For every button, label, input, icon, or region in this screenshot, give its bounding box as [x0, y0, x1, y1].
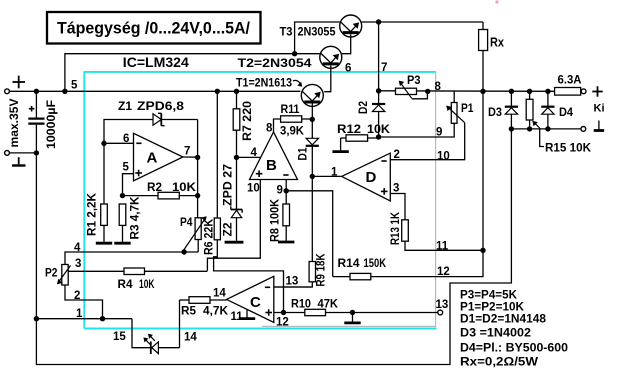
svg-text:R7 220: R7 220 [242, 101, 254, 141]
hook arrow to T1 [293, 80, 301, 84]
wire A-node down to P4 [197, 157, 199, 217]
wire input- [10, 152, 37, 154]
junction R15 top [527, 89, 532, 94]
svg-text:3: 3 [393, 183, 399, 195]
svg-text:T2=2N3054: T2=2N3054 [238, 58, 313, 70]
svg-text:12: 12 [437, 266, 450, 278]
wire P2 bottom (2) [65, 285, 103, 319]
potentiometer P2 [62, 265, 68, 286]
svg-text:P1=P2=10K: P1=P2=10K [460, 302, 525, 314]
output ground mark [598, 121, 600, 131]
svg-text:2N3055: 2N3055 [298, 27, 337, 39]
zener Z1 feedback wire [104, 120, 153, 144]
op-amp B [250, 132, 298, 180]
svg-text:13: 13 [436, 299, 449, 311]
diode D3 [510, 91, 512, 106]
junction P3 right [425, 89, 430, 94]
output + terminal [581, 89, 586, 94]
wire T2 base down [324, 66, 331, 92]
svg-text:9: 9 [277, 185, 283, 197]
wire1 drop to LED [132, 319, 151, 348]
svg-text:11: 11 [436, 241, 449, 253]
wire Z1 to pin7 node [197, 120, 199, 158]
input + terminal [5, 89, 10, 94]
svg-text:R10: R10 [291, 299, 311, 311]
ground R10 [352, 313, 354, 323]
ground R12 [340, 138, 342, 152]
svg-text:D1=D2=1N4148: D1=D2=1N4148 [460, 314, 547, 326]
junction Rx rail [480, 89, 485, 94]
svg-text:5: 5 [71, 80, 78, 92]
resistor R13 [402, 220, 409, 241]
svg-text:R6 22K: R6 22K [204, 218, 216, 255]
artifact dot [496, 1, 499, 4]
resistor R5 [180, 299, 190, 301]
junction bus x236 [234, 89, 239, 94]
wire A pin7 out [183, 156, 198, 158]
wire collector feed riser [65, 54, 320, 92]
junction bus x65 [62, 89, 67, 94]
wire to Rx [482, 22, 484, 30]
wire pin9 to R14 riser [286, 191, 333, 277]
junction node11 [480, 248, 485, 253]
svg-text:R1 2,2K: R1 2,2K [87, 192, 99, 236]
junction A out [195, 155, 200, 160]
op-amp A [134, 133, 183, 181]
junction node1 [310, 174, 315, 179]
resistor R4 [124, 268, 145, 275]
junction D2 top [376, 88, 381, 93]
svg-text:R5: R5 [181, 306, 197, 318]
wire D pin3 to R13 [390, 194, 405, 220]
resistor R6 [216, 91, 218, 218]
svg-text:12: 12 [276, 317, 289, 329]
resistor R1 [103, 143, 105, 204]
svg-text:3: 3 [75, 258, 81, 270]
svg-text:10K: 10K [139, 279, 155, 291]
plus polarity mark [13, 81, 26, 83]
wire P1 top feed [453, 91, 455, 102]
svg-text:150K: 150K [364, 258, 387, 270]
wire B pin4 [237, 156, 261, 158]
junction D3 bottom [509, 126, 514, 131]
resistor R2 [123, 195, 159, 197]
junction R7 bottom [234, 155, 239, 160]
resistor R12 [341, 137, 346, 139]
svg-text:Rx: Rx [490, 36, 504, 50]
svg-text:R13 1K: R13 1K [390, 211, 402, 245]
svg-text:10000µF: 10000µF [44, 100, 58, 149]
capacitor C 10000uF [35, 91, 37, 117]
potentiometer P3 [396, 88, 417, 94]
wire Rx down [482, 51, 484, 251]
junction A pin6 [101, 141, 106, 146]
wire minus return [36, 129, 511, 365]
junction wire1 P2 [100, 316, 105, 321]
wire input+ to bus [10, 90, 37, 92]
potentiometer P4 [195, 218, 201, 240]
svg-text:1: 1 [331, 167, 338, 179]
diode D1 [311, 119, 313, 139]
svg-text:7: 7 [184, 146, 190, 158]
svg-text:R2: R2 [147, 182, 162, 194]
junction R11 right [310, 117, 315, 122]
junction T3 emitter node [376, 19, 381, 24]
wire T3 base [342, 34, 351, 54]
ground C pin11 [246, 310, 248, 319]
svg-text:9: 9 [436, 127, 442, 139]
wire P2 wiper run (3) [68, 270, 124, 272]
diode D4 [547, 91, 549, 106]
junction D3 top [509, 89, 514, 94]
svg-text:B: B [266, 157, 277, 174]
junction node9 [376, 134, 381, 139]
svg-text:8: 8 [435, 81, 442, 93]
svg-text:11: 11 [231, 311, 244, 323]
svg-text:R15 10K: R15 10K [545, 143, 592, 155]
transistor T3 2N3055 [340, 15, 362, 37]
junction R2 right [195, 193, 200, 198]
svg-text:8: 8 [266, 123, 273, 135]
junction R10 ground [350, 310, 355, 315]
junction D4 top [545, 89, 550, 94]
svg-text:D3: D3 [488, 107, 502, 119]
svg-text:D1: D1 [298, 147, 310, 161]
svg-text:10: 10 [437, 151, 450, 163]
fuse 6.3A [555, 88, 581, 96]
wire LED to R5 [179, 300, 181, 348]
svg-text:D2: D2 [358, 101, 370, 114]
wire A pin6 [104, 142, 134, 144]
svg-text:14: 14 [184, 332, 197, 344]
junction collector node [292, 51, 297, 56]
svg-text:P3=P4=5K: P3=P4=5K [460, 290, 518, 302]
svg-text:10K: 10K [367, 124, 391, 136]
title box [47, 12, 261, 44]
wire A pin5 [123, 174, 134, 196]
svg-text:10K: 10K [172, 182, 197, 194]
junction D4 bottom [545, 126, 550, 131]
svg-text:D4=Pl.: BY500-600: D4=Pl.: BY500-600 [460, 343, 568, 355]
svg-text:4: 4 [251, 147, 258, 159]
resistor R7 [236, 91, 238, 109]
trimmer R15 [529, 91, 531, 99]
junction R2 R3 node [120, 193, 125, 198]
wire pin4 run [65, 252, 198, 265]
zener Z2 [236, 157, 238, 209]
svg-text:T1=2N1613: T1=2N1613 [236, 78, 292, 90]
svg-text:14: 14 [213, 288, 226, 300]
svg-text:4: 4 [74, 242, 81, 254]
resistor R3 [119, 204, 126, 225]
svg-text:5: 5 [123, 162, 130, 174]
wire output rail [379, 90, 555, 93]
wire P1 wiper to pin2 [390, 123, 464, 160]
IC box (cyan outline LM324 module) [84, 72, 436, 329]
svg-text:47K: 47K [318, 299, 339, 311]
svg-text:7: 7 [381, 62, 387, 74]
svg-text:15: 15 [113, 331, 126, 343]
junction cap bottom [34, 150, 39, 155]
svg-text:P1: P1 [461, 103, 474, 115]
svg-text:3,9K: 3,9K [280, 126, 305, 138]
svg-text:D3 =1N4002: D3 =1N4002 [460, 328, 531, 340]
svg-text:R12: R12 [337, 124, 361, 136]
op-amp D [342, 153, 391, 201]
svg-text:C: C [250, 294, 261, 311]
diode D2 [378, 91, 380, 104]
wire B pin9 down [285, 180, 287, 191]
wire T3 collector corner [295, 22, 340, 54]
terminal 13 circle [438, 310, 443, 315]
wire B pin10 down [207, 180, 260, 271]
junction cap top [34, 89, 39, 94]
svg-text:ZPD 27: ZPD 27 [223, 164, 235, 206]
svg-text:6: 6 [345, 63, 351, 75]
transistor T2 2N3054 [320, 46, 342, 68]
resistor R11 [281, 116, 302, 122]
wire T3 emitter riser [378, 22, 380, 91]
svg-text:R11: R11 [281, 104, 301, 116]
wire C pin12 out [274, 312, 305, 314]
junction bus x217 [215, 89, 220, 94]
junction rail wire1 [34, 316, 39, 321]
svg-text:Ki: Ki [594, 103, 605, 115]
svg-text:13: 13 [286, 276, 299, 288]
resistor R14 [333, 276, 350, 278]
op-amp C [227, 276, 274, 322]
svg-text:P2: P2 [45, 268, 58, 280]
IC box right edge (gray) [262, 73, 436, 327]
svg-text:max.35V: max.35V [7, 99, 21, 148]
resistor Rx [479, 30, 488, 51]
wire T3 emitter to rail [362, 21, 483, 23]
svg-text:IC=LM324: IC=LM324 [123, 55, 190, 70]
svg-text:Rx=0,2Ω/5W: Rx=0,2Ω/5W [460, 357, 538, 369]
wire +bus y91 [36, 90, 300, 92]
svg-text:Z1: Z1 [118, 101, 133, 113]
wire output minus rail [511, 128, 580, 130]
input - terminal [5, 151, 10, 156]
svg-text:P3: P3 [407, 75, 421, 87]
svg-text:Tápegység /0...24V,0...5A/: Tápegység /0...24V,0...5A/ [57, 19, 250, 38]
svg-text:6.3A: 6.3A [558, 75, 582, 87]
svg-text:D: D [366, 169, 377, 186]
svg-text:R14: R14 [338, 258, 361, 270]
svg-text:D4: D4 [559, 107, 574, 119]
junction R15 bottom [527, 126, 532, 131]
svg-text:P4: P4 [180, 217, 193, 229]
LED [150, 342, 152, 355]
svg-text:R8 100K: R8 100K [270, 198, 282, 242]
svg-text:R4: R4 [118, 279, 134, 291]
transistor T1 2N1613 [301, 84, 323, 106]
svg-text:2: 2 [394, 149, 400, 161]
svg-text:A: A [147, 150, 158, 167]
wire B out to R11 [274, 119, 281, 132]
output plus mark [592, 91, 602, 93]
wire node1 run [36, 318, 132, 320]
svg-text:R9 18K: R9 18K [316, 253, 328, 287]
svg-text:4,7K: 4,7K [203, 306, 229, 318]
svg-text:R3 4,7K: R3 4,7K [130, 196, 142, 240]
svg-text:Z2: Z2 [223, 223, 235, 237]
junction B pin9 [284, 188, 289, 193]
resistor R8 [285, 191, 287, 204]
junction P4 wiper [181, 249, 186, 254]
resistor R9 [311, 176, 313, 261]
svg-text:T3: T3 [280, 27, 293, 39]
output - terminal [581, 126, 586, 131]
wire P1 bottom to node9 [379, 123, 455, 137]
potentiometer P1 [451, 103, 457, 124]
resistor R10 [305, 309, 326, 315]
junction C pin12 [281, 310, 286, 315]
zener Z1 [153, 114, 161, 125]
wire T1 base [311, 104, 313, 120]
wire C pin13 to R9 [274, 286, 313, 288]
svg-text:ZPD6,8: ZPD6,8 [137, 101, 185, 113]
minus polarity mark [18, 157, 20, 164]
svg-text:10: 10 [247, 183, 260, 195]
wire D out [312, 175, 341, 177]
